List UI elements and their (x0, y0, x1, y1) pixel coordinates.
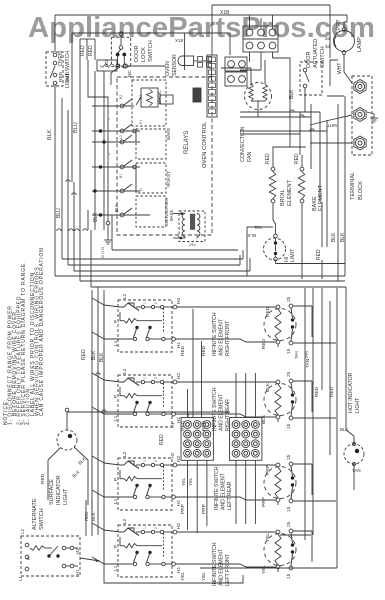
svg-text:B2: B2 (119, 95, 123, 99)
svg-text:RED: RED (81, 349, 87, 360)
svg-text:BLK: BLK (91, 512, 96, 521)
svg-text:1b: 1b (286, 573, 292, 579)
svg-text:YEL: YEL (261, 565, 267, 574)
svg-text:TAN: TAN (294, 351, 299, 359)
svg-text:TAN: TAN (304, 351, 309, 359)
svg-text:2b: 2b (286, 521, 292, 527)
svg-text:LIGHT: LIGHT (63, 488, 69, 505)
svg-text:RELAYS: RELAYS (184, 131, 190, 154)
svg-text:OVEN CONTROL: OVEN CONTROL (202, 121, 208, 168)
svg-text:BLK: BLK (331, 232, 337, 242)
svg-text:LEFT FRONT: LEFT FRONT (225, 553, 231, 586)
svg-text:INFINITE SWITCH: INFINITE SWITCH (212, 312, 218, 356)
svg-text:H2: H2 (75, 548, 80, 554)
svg-text:L2: L2 (119, 135, 123, 139)
svg-text:RED: RED (294, 153, 300, 164)
svg-text:PRP: PRP (265, 465, 271, 475)
svg-text:H1: H1 (75, 569, 80, 575)
svg-text:H2: H2 (176, 298, 182, 304)
svg-text:BLU: BLU (56, 208, 62, 218)
svg-text:BLK: BLK (114, 204, 119, 212)
svg-text:OVEN: OVEN (165, 61, 171, 76)
svg-text:RIGHT FRONT: RIGHT FRONT (225, 320, 231, 356)
svg-text:H2: H2 (176, 523, 182, 529)
svg-text:2: 2 (154, 377, 158, 379)
svg-text:X1B: X1B (220, 10, 230, 16)
svg-text:L1: L1 (113, 565, 119, 571)
svg-text:NO: NO (104, 60, 110, 67)
svg-text:B3: B3 (139, 95, 143, 99)
svg-text:1: 1 (143, 302, 147, 304)
svg-text:L1: L1 (113, 415, 119, 421)
svg-text:BLK: BLK (340, 427, 349, 432)
svg-text:YEL: YEL (265, 533, 271, 542)
svg-text:RED: RED (265, 306, 271, 317)
svg-text:RED: RED (314, 386, 320, 397)
svg-text:CAN CAUSE IMPROPER AND DANGERO: CAN CAUSE IMPROPER AND DANGEROUS OPERATI… (39, 245, 45, 416)
svg-text:2b: 2b (286, 454, 292, 460)
svg-text:X16: X16 (254, 225, 262, 230)
svg-text:SWITCH: SWITCH (39, 508, 45, 530)
svg-text:1b: 1b (286, 506, 292, 512)
svg-text:BLK: BLK (93, 212, 99, 222)
svg-text:AND ELEMENT: AND ELEMENT (219, 548, 225, 586)
svg-text:P: P (113, 320, 119, 323)
svg-text:3d: 3d (325, 44, 331, 49)
svg-text:AND ELEMENT: AND ELEMENT (219, 318, 225, 356)
svg-text:H1: H1 (170, 422, 175, 428)
svg-text:RED: RED (329, 386, 335, 397)
svg-text:L2: L2 (122, 368, 128, 374)
svg-text:2: 2 (154, 302, 158, 304)
svg-text:LIMIT: LIMIT (290, 248, 296, 262)
svg-text:1b: 1b (286, 348, 292, 354)
svg-text:LOCK: LOCK (141, 47, 147, 62)
svg-text:ROAST: ROAST (166, 171, 171, 187)
svg-text:L1: L1 (113, 498, 119, 504)
svg-text:BROIL: BROIL (280, 189, 286, 206)
svg-text:ALTERNATE: ALTERNATE (32, 498, 38, 530)
svg-text:RED: RED (84, 511, 89, 521)
svg-text:SWITCH: SWITCH (148, 40, 154, 62)
svg-text:WHT: WHT (327, 123, 337, 128)
svg-text:INFINITE SWITCH: INFINITE SWITCH (214, 466, 220, 510)
svg-text:PRP: PRP (261, 497, 267, 507)
svg-text:P: P (113, 395, 119, 398)
svg-text:LIGHT: LIGHT (355, 397, 361, 413)
svg-text:RED: RED (316, 249, 322, 260)
svg-text:BLK: BLK (340, 232, 346, 242)
svg-text:BLK: BLK (246, 233, 256, 238)
svg-text:L1: L1 (113, 340, 119, 346)
svg-text:ELEMENT: ELEMENT (287, 179, 293, 206)
svg-text:BLK: BLK (91, 350, 97, 360)
svg-text:1b: 1b (286, 423, 292, 429)
svg-text:INDICATOR: INDICATOR (56, 475, 62, 505)
svg-text:PRP: PRP (336, 19, 342, 30)
svg-text:WHT: WHT (337, 63, 343, 74)
svg-text:BLK: BLK (47, 129, 53, 140)
svg-text:ELEMENT: ELEMENT (318, 184, 324, 211)
svg-text:LAMP: LAMP (357, 37, 363, 52)
svg-text:B1: B1 (119, 174, 123, 178)
svg-text:H2: H2 (176, 373, 182, 379)
svg-text:2d: 2d (325, 36, 331, 41)
svg-text:INFINITE SWITCH: INFINITE SWITCH (212, 387, 218, 431)
svg-text:RIGHT REAR: RIGHT REAR (225, 399, 231, 431)
svg-text:P: P (26, 557, 31, 560)
svg-text:DOOR: DOOR (134, 45, 140, 62)
svg-text:HOT INDICATOR: HOT INDICATOR (348, 372, 354, 413)
svg-text:DOOR: DOOR (306, 51, 312, 68)
svg-text:P: P (113, 478, 119, 481)
svg-text:2: 2 (154, 527, 158, 529)
svg-text:FAN: FAN (247, 152, 253, 162)
svg-text:NC: NC (127, 70, 133, 77)
svg-text:RED: RED (65, 71, 71, 82)
svg-text:P: P (113, 545, 119, 548)
svg-text:INFINITE SWITCH: INFINITE SWITCH (212, 542, 218, 586)
svg-text:2b: 2b (286, 371, 292, 377)
svg-text:RED: RED (58, 71, 64, 82)
svg-text:BAKE: BAKE (169, 210, 174, 221)
svg-text:BLK: BLK (99, 352, 105, 362)
svg-text:2: 2 (154, 460, 158, 462)
svg-text:G N D: G N D (100, 247, 105, 258)
svg-text:BLK: BLK (265, 382, 271, 392)
svg-text:YEL: YEL (201, 572, 207, 581)
svg-text:YEL: YEL (181, 477, 186, 486)
svg-text:RED: RED (88, 45, 94, 56)
svg-text:OVEN: OVEN (58, 51, 64, 66)
svg-text:YEL: YEL (180, 572, 186, 581)
svg-text:BAKE: BAKE (166, 128, 171, 140)
svg-text:CONVECTION: CONVECTION (240, 127, 246, 162)
svg-text:RED: RED (265, 153, 271, 164)
svg-text:2: 2 (107, 153, 111, 155)
svg-text:L1: L1 (18, 575, 23, 581)
svg-text:RED: RED (80, 45, 86, 56)
svg-text:1: 1 (143, 527, 147, 529)
svg-text:TAN: TAN (352, 468, 361, 473)
svg-text:RED: RED (180, 345, 186, 356)
svg-text:1: 1 (107, 118, 111, 120)
svg-text:X18: X18 (175, 38, 184, 43)
svg-text:1: 1 (143, 460, 147, 462)
svg-text:24V: 24V (189, 243, 196, 247)
svg-text:SURFACE: SURFACE (49, 479, 55, 505)
svg-text:TERMINAL: TERMINAL (350, 172, 356, 200)
svg-text:RED: RED (159, 434, 165, 445)
svg-text:LEFT REAR: LEFT REAR (227, 481, 233, 510)
svg-text:P1: P1 (139, 120, 143, 124)
svg-text:BLOCK: BLOCK (358, 181, 364, 200)
svg-text:PRP: PRP (201, 504, 207, 514)
svg-text:RED: RED (40, 473, 46, 484)
svg-text:L2: L2 (20, 528, 25, 534)
svg-text:RED: RED (261, 338, 267, 349)
svg-text:SWITCH: SWITCH (320, 46, 326, 68)
svg-text:H2: H2 (170, 452, 175, 458)
svg-text:YEL: YEL (188, 477, 193, 486)
svg-text:AND ELEMENT: AND ELEMENT (221, 472, 227, 510)
svg-text:PRP: PRP (180, 504, 186, 514)
svg-text:2b: 2b (286, 296, 292, 302)
svg-text:ACTUATED: ACTUATED (313, 39, 319, 68)
svg-text:SENSOR: SENSOR (172, 54, 178, 76)
svg-text:L2: L2 (122, 518, 128, 524)
svg-text:BLU: BLU (73, 122, 79, 133)
svg-text:1: 1 (143, 377, 147, 379)
svg-text:L2: L2 (122, 451, 128, 457)
svg-text:L2: L2 (122, 293, 128, 299)
